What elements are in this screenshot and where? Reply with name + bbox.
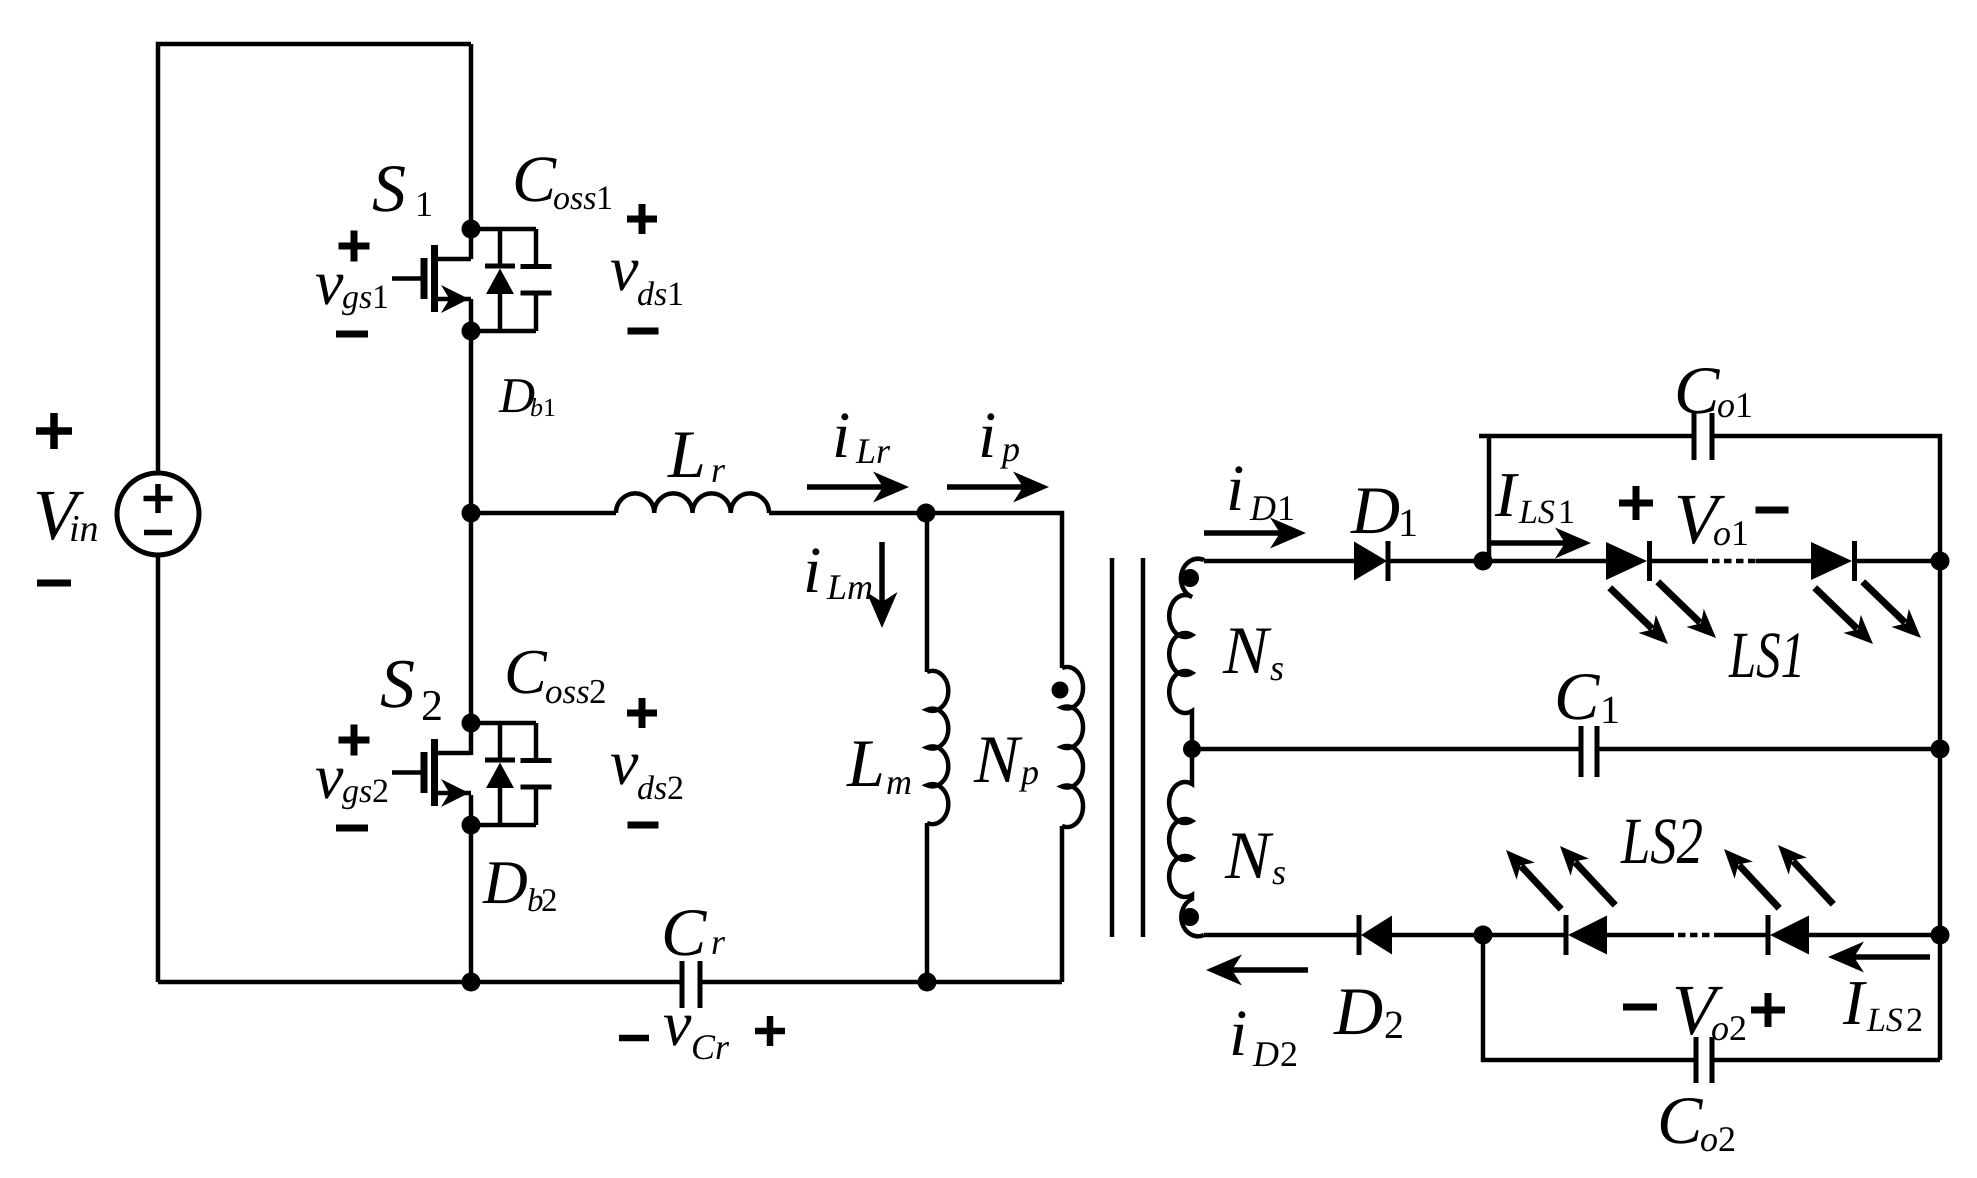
svg-text:C: C — [1554, 658, 1600, 734]
svg-text:N: N — [973, 721, 1023, 797]
svg-text:2: 2 — [1718, 1119, 1736, 1159]
svg-text:gs: gs — [342, 773, 372, 810]
svg-text:p: p — [1018, 752, 1039, 792]
svg-text:2: 2 — [1384, 1002, 1404, 1047]
svg-text:v: v — [315, 741, 344, 812]
svg-text:LS: LS — [1518, 494, 1555, 531]
svg-text:N: N — [1224, 817, 1274, 893]
svg-text:2: 2 — [1729, 1008, 1747, 1048]
svg-text:ds: ds — [637, 770, 667, 807]
svg-text:oss: oss — [545, 672, 590, 711]
svg-text:1: 1 — [415, 184, 433, 224]
svg-text:Lm: Lm — [826, 567, 873, 607]
svg-text:D: D — [1252, 1034, 1279, 1074]
svg-text:r: r — [711, 922, 726, 962]
svg-text:i: i — [832, 399, 850, 472]
svg-text:1: 1 — [1731, 513, 1749, 553]
svg-text:I: I — [1842, 967, 1867, 1038]
svg-text:v: v — [663, 988, 692, 1059]
svg-text:D: D — [1249, 488, 1276, 528]
svg-text:oss: oss — [553, 180, 596, 217]
svg-text:ds: ds — [637, 276, 667, 313]
svg-text:N: N — [1222, 612, 1272, 688]
svg-text:v: v — [315, 247, 344, 318]
svg-text:i: i — [1229, 997, 1247, 1070]
svg-text:2: 2 — [1906, 1002, 1923, 1039]
svg-text:s: s — [1272, 852, 1286, 892]
svg-text:o: o — [1717, 385, 1735, 425]
svg-text:C: C — [504, 636, 548, 707]
svg-text:D: D — [1350, 472, 1400, 548]
svg-text:2: 2 — [421, 681, 443, 730]
svg-text:1: 1 — [1558, 494, 1575, 531]
svg-text:v: v — [610, 727, 639, 798]
svg-text:r: r — [711, 450, 726, 490]
svg-text:o: o — [1711, 1008, 1729, 1048]
svg-text:i: i — [803, 534, 821, 607]
svg-text:1: 1 — [1398, 500, 1418, 545]
svg-text:L: L — [846, 725, 885, 801]
svg-text:gs: gs — [342, 279, 372, 316]
svg-text:C: C — [661, 894, 707, 970]
svg-text:s: s — [1270, 648, 1284, 688]
svg-text:2: 2 — [667, 770, 684, 807]
svg-text:LS: LS — [1866, 1002, 1903, 1039]
svg-text:m: m — [886, 762, 912, 802]
svg-text:p: p — [999, 429, 1020, 469]
svg-text:v: v — [610, 233, 639, 304]
svg-text:1: 1 — [667, 276, 684, 313]
svg-text:1: 1 — [1600, 687, 1620, 732]
svg-text:1: 1 — [1735, 385, 1753, 425]
svg-text:i: i — [978, 399, 996, 472]
svg-text:in: in — [69, 508, 99, 550]
svg-text:S: S — [372, 150, 406, 226]
svg-text:o: o — [1713, 513, 1731, 553]
svg-text:Lr: Lr — [855, 431, 891, 471]
svg-text:L: L — [667, 416, 706, 492]
svg-text:2: 2 — [372, 773, 389, 810]
svg-text:2: 2 — [1280, 1034, 1298, 1074]
svg-text:C: C — [1657, 1082, 1703, 1158]
svg-text:I: I — [1494, 459, 1519, 530]
svg-text:LS2: LS2 — [1620, 805, 1703, 878]
svg-text:C: C — [512, 143, 557, 216]
svg-text:D: D — [482, 849, 528, 917]
svg-text:LS1: LS1 — [1728, 619, 1805, 692]
svg-text:b: b — [530, 393, 543, 422]
svg-text:Cr: Cr — [691, 1027, 730, 1067]
svg-text:1: 1 — [1277, 488, 1295, 528]
svg-text:C: C — [1674, 352, 1720, 428]
svg-text:1: 1 — [596, 180, 613, 217]
svg-text:i: i — [1226, 452, 1244, 525]
svg-text:2: 2 — [541, 883, 558, 919]
svg-text:1: 1 — [372, 279, 389, 316]
svg-text:D: D — [1333, 973, 1383, 1049]
svg-text:2: 2 — [589, 672, 607, 711]
svg-text:o: o — [1700, 1119, 1718, 1159]
svg-text:S: S — [380, 646, 415, 723]
svg-text:1: 1 — [543, 393, 556, 422]
